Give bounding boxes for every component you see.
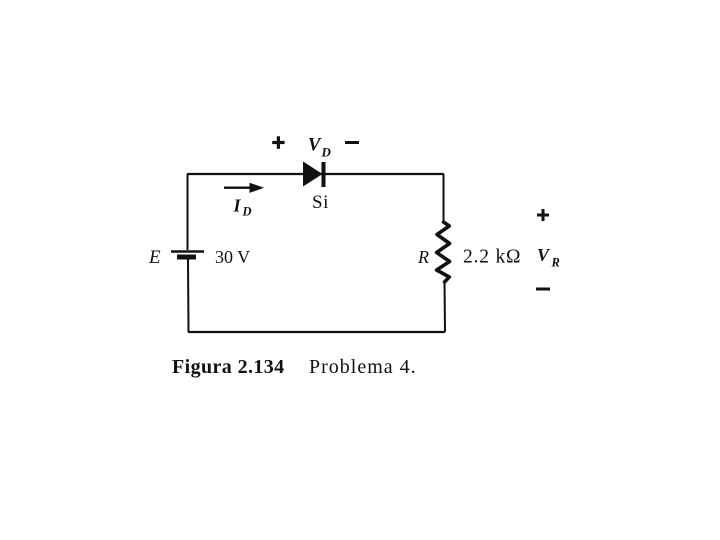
minus sign (diode cathode) xyxy=(345,141,359,144)
svg-text:I: I xyxy=(233,196,242,216)
svg-text:V: V xyxy=(308,136,322,156)
svg-text:Problema 4.: Problema 4. xyxy=(309,356,417,378)
battery E short thick plate xyxy=(177,255,196,260)
svg-text:30 V: 30 V xyxy=(215,247,250,267)
svg-text:Figura 2.134: Figura 2.134 xyxy=(172,356,285,378)
svg-text:R: R xyxy=(417,247,429,267)
resistor R zigzag xyxy=(437,222,450,282)
svg-text:V: V xyxy=(537,245,551,265)
svg-text:2.2 kΩ: 2.2 kΩ xyxy=(463,247,521,268)
wire left upper xyxy=(187,174,189,250)
current arrow ID xyxy=(224,186,252,188)
diode D cathode bar xyxy=(322,162,326,187)
diode D triangle (anode) xyxy=(303,162,323,187)
wire top xyxy=(187,173,444,175)
wire right lower xyxy=(444,281,447,332)
plus sign (VR top) xyxy=(537,214,549,217)
minus sign (VR bottom) xyxy=(536,288,550,291)
battery E long plate xyxy=(171,250,204,253)
wire right upper xyxy=(443,174,445,223)
svg-text:Si: Si xyxy=(312,192,329,213)
wire left lower xyxy=(187,260,190,333)
wire bottom xyxy=(188,331,445,333)
svg-text:E: E xyxy=(148,247,161,268)
svg-text:D: D xyxy=(321,145,332,160)
svg-text:R: R xyxy=(551,256,560,270)
plus sign (diode anode) xyxy=(272,141,284,144)
svg-text:D: D xyxy=(242,205,252,219)
